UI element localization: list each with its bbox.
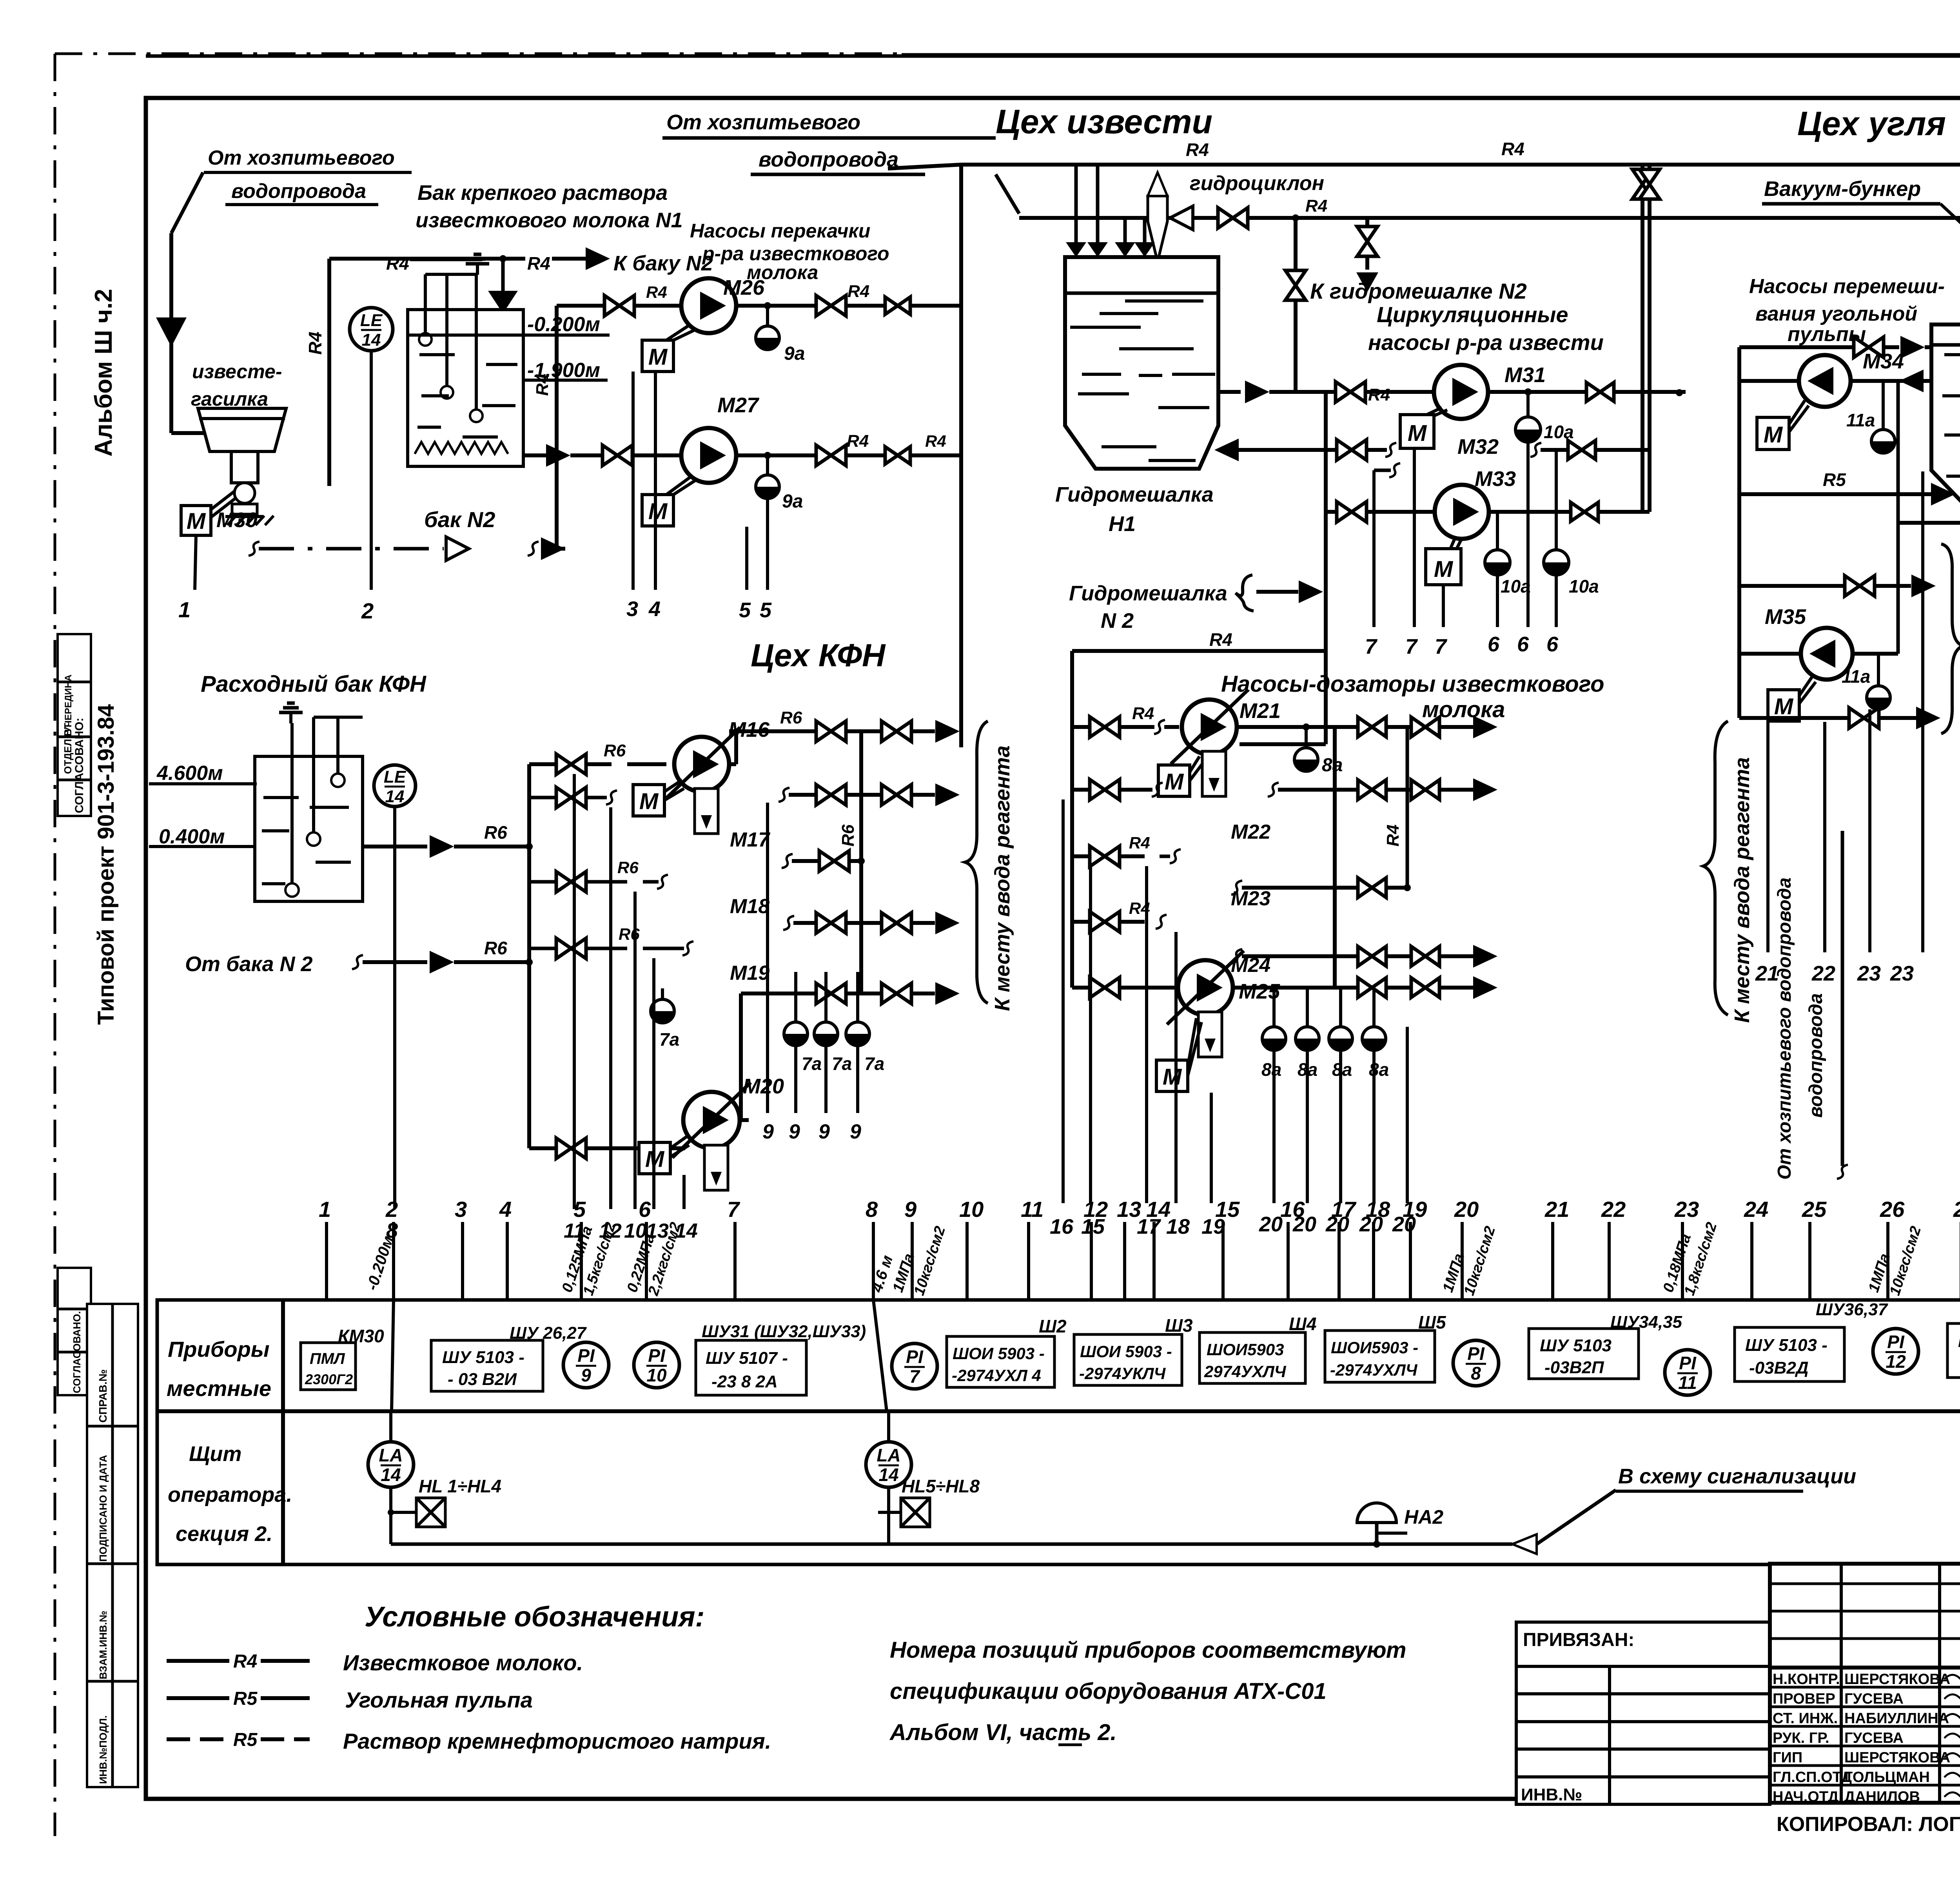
svg-text:5: 5 [760, 598, 772, 622]
row 3 (M23) [1072, 854, 1091, 858]
left stamp box (СОГЛАСОВАНО) [58, 634, 91, 816]
svg-text:Гидромешалка: Гидромешалка [1055, 483, 1214, 506]
svg-text:R6: R6 [484, 938, 507, 958]
row 3 valve [529, 880, 557, 884]
svg-text:М: М [639, 789, 659, 814]
svg-text:ШЕРСТЯКОВА: ШЕРСТЯКОВА [1844, 1671, 1950, 1688]
inlet triangles on mixer tank [1074, 165, 1078, 242]
KFN output row 3 [782, 854, 793, 868]
wire KFN outlet R6 [363, 845, 427, 848]
instr box ШУ5103-03В2М [1947, 1323, 1960, 1378]
svg-text:7а: 7а [832, 1053, 852, 1074]
svg-text:6: 6 [1517, 633, 1529, 656]
svg-text:ГУСЕВА: ГУСЕВА [1844, 1691, 1904, 1707]
svg-text:ГЛ.СП.ОТД: ГЛ.СП.ОТД [1773, 1769, 1852, 1786]
svg-text:5: 5 [573, 1197, 586, 1222]
svg-text:К месту ввода реагента: К месту ввода реагента [991, 745, 1014, 1011]
KFN pump M16 to row1 jog [729, 762, 736, 766]
svg-text:9: 9 [762, 1120, 774, 1143]
indicators 8a row of 4 [1272, 988, 1276, 1027]
svg-text:водопровода: водопровода [231, 180, 366, 203]
svg-text:10а: 10а [1501, 576, 1531, 596]
svg-text:13: 13 [1117, 1197, 1141, 1222]
svg-text:LA: LA [877, 1445, 900, 1465]
wire M21 discharge [1237, 725, 1358, 729]
svg-text:ШУ 5107 -: ШУ 5107 - [706, 1349, 788, 1368]
row3 out [1231, 881, 1242, 895]
KFN level 4.600 [149, 782, 257, 785]
panel instrument LA 14 no2 [866, 1442, 911, 1487]
svg-text:5: 5 [739, 598, 751, 622]
svg-text:М21: М21 [1240, 699, 1281, 723]
wire LE to panel [370, 352, 373, 590]
motor box M35 [1768, 690, 1799, 721]
wire stubs 17 18 19 [1145, 866, 1148, 1203]
wire R4 top to tank [329, 257, 503, 261]
svg-text:PI: PI [1887, 1332, 1905, 1352]
svg-text:ПОДПИСАНО И ДАТА: ПОДПИСАНО И ДАТА [97, 1455, 109, 1562]
svg-text:R4: R4 [1209, 629, 1232, 650]
svg-text:Расходный бак КФН: Расходный бак КФН [201, 671, 426, 697]
wire M27 discharge [736, 453, 817, 457]
svg-text:Насосы-дозаторы известкового: Насосы-дозаторы известкового [1221, 671, 1604, 697]
horn HA2 [1357, 1503, 1396, 1523]
feed row upper to mixer N2 [1739, 584, 1846, 588]
manifold riser KFN [527, 764, 531, 1148]
svg-text:7а: 7а [864, 1053, 884, 1074]
svg-text:От хозпитьевого: От хозпитьевого [208, 147, 395, 169]
wire vertical water spur [1841, 854, 1844, 1166]
svg-text:М27: М27 [717, 393, 760, 417]
svg-text:R4: R4 [305, 332, 325, 355]
KFN output row 4 [783, 916, 794, 930]
svg-text:Цех КФН: Цех КФН [751, 638, 886, 673]
instr box ШОИ 1 [947, 1336, 1054, 1387]
svg-text:гасилка: гасилка [191, 388, 268, 410]
hydro-mixer tank N1 [1065, 257, 1218, 469]
arrow into slaker [156, 317, 187, 347]
svg-text:М33: М33 [1475, 467, 1516, 491]
svg-text:Н1: Н1 [1109, 512, 1136, 536]
svg-text:R4: R4 [1501, 139, 1524, 159]
row 4 (M24) [1072, 920, 1091, 924]
row2 out [1268, 783, 1279, 797]
wire water inlet [171, 172, 203, 233]
svg-text:НАЧ.ОТД.: НАЧ.ОТД. [1773, 1789, 1843, 1805]
svg-text:14: 14 [385, 787, 405, 806]
tank N1 [408, 310, 523, 466]
svg-text:14: 14 [362, 330, 381, 350]
svg-text:Раствор кремнефтористого натри: Раствор кремнефтористого натрия. [343, 1729, 771, 1753]
svg-text:М: М [648, 499, 668, 524]
svg-text:КМ30: КМ30 [338, 1326, 384, 1346]
valve stub to hydro-mixer N2 [1365, 218, 1369, 227]
svg-text:От бака N 2: От бака N 2 [185, 952, 313, 976]
instr circle PI 12 [1873, 1329, 1918, 1374]
svg-text:М31: М31 [1504, 363, 1546, 387]
wire M25 discharge [1233, 986, 1358, 990]
valve M26 suction [604, 295, 634, 316]
dosing pump M25 [1178, 960, 1233, 1015]
svg-text:22: 22 [1811, 962, 1835, 985]
svg-text:R6: R6 [484, 822, 507, 843]
pump M33 [1435, 485, 1489, 539]
bracket К месту ввода реагента (KFN) [965, 721, 988, 1003]
svg-text:9: 9 [818, 1120, 830, 1143]
svg-text:Приборы: Приборы [168, 1337, 270, 1361]
instr box ШУ5103-03В2И [431, 1340, 543, 1391]
svg-text:7: 7 [727, 1197, 740, 1222]
svg-text:Гидромешалка: Гидромешалка [1069, 582, 1227, 605]
svg-text:ГУСЕВА: ГУСЕВА [1844, 1730, 1904, 1746]
svg-text:PI: PI [906, 1347, 924, 1367]
svg-text:Циркуляционные: Циркуляционные [1377, 302, 1568, 327]
svg-text:2300Г2: 2300Г2 [305, 1371, 353, 1387]
svg-text:СОГЛАСОВАНО:: СОГЛАСОВАНО: [73, 718, 86, 813]
instr box ШУ5107-2382А [696, 1340, 806, 1395]
KFN output row 2 [779, 788, 789, 802]
svg-text:7: 7 [909, 1366, 920, 1387]
svg-text:бак N2: бак N2 [424, 507, 495, 532]
wire R4 riser mid [555, 306, 559, 549]
svg-text:10а: 10а [1569, 576, 1599, 596]
pump M31 [1434, 365, 1488, 419]
instr box ШУ5103-03В2Д [1735, 1327, 1844, 1381]
svg-text:Ш2: Ш2 [1039, 1316, 1067, 1336]
svg-text:R4: R4 [233, 1651, 257, 1672]
svg-text:ШУ36,37: ШУ36,37 [1816, 1300, 1889, 1319]
indicator 9a upper [766, 306, 769, 326]
motor box M21 [1158, 765, 1190, 796]
row4 out [1231, 949, 1242, 963]
valve M33 suction [1337, 502, 1367, 522]
motor box M31 [1400, 415, 1434, 448]
dosing pump M21 [1182, 700, 1237, 754]
svg-text:ШЕРСТЯКОВА: ШЕРСТЯКОВА [1844, 1749, 1950, 1766]
title block left grid [1840, 1564, 1843, 1803]
svg-text:Насосы перекачки: Насосы перекачки [690, 220, 870, 242]
valve on M27 suction [603, 445, 632, 466]
svg-text:ПМЛ: ПМЛ [310, 1350, 345, 1367]
svg-text:8а: 8а [1261, 1059, 1281, 1080]
indicator 7a single [661, 988, 664, 999]
valve row2 far [885, 447, 910, 464]
svg-text:М19: М19 [730, 962, 769, 984]
row 2 valve [529, 796, 557, 799]
instr box ШУ5103-03В2П [1529, 1329, 1639, 1379]
instr box ПМЛ [301, 1343, 356, 1390]
KFN output row 5 [741, 992, 816, 995]
svg-text:22: 22 [1601, 1197, 1626, 1222]
signal wire [391, 1543, 1512, 1546]
svg-text:ШУ31 (ШУ32,ШУ33): ШУ31 (ШУ32,ШУ33) [702, 1322, 866, 1341]
svg-text:М17: М17 [730, 828, 770, 851]
svg-text:ШУ34,35: ШУ34,35 [1610, 1312, 1682, 1332]
brace and arrow into riser [1236, 575, 1254, 611]
suction arrow from tank to M34 [1851, 379, 1931, 383]
svg-text:Номера позиций приборов соо: Номера позиций приборов соответствуют [890, 1637, 1406, 1663]
svg-text:гидроциклон: гидроциклон [1190, 172, 1324, 195]
sheet trim border (dash-dot) [55, 53, 902, 55]
svg-text:R4: R4 [386, 253, 409, 274]
svg-text:11: 11 [1021, 1197, 1044, 1222]
svg-text:-2974УХЛЧ: -2974УХЛЧ [1330, 1361, 1418, 1379]
svg-text:R4: R4 [925, 432, 946, 450]
wire left riser from pumps [959, 165, 963, 747]
svg-text:Ш4: Ш4 [1289, 1314, 1317, 1334]
svg-text:К месту ввода реагента: К месту ввода реагента [1730, 757, 1754, 1023]
svg-text:7: 7 [1365, 635, 1378, 658]
svg-text:8а: 8а [1369, 1059, 1389, 1080]
svg-text:R5: R5 [233, 1688, 258, 1709]
dosing pump M16 [674, 737, 729, 792]
motor box M27 [642, 495, 673, 526]
svg-text:23: 23 [1857, 962, 1881, 985]
svg-text:РУК. ГР.: РУК. ГР. [1773, 1730, 1829, 1746]
svg-text:HL5÷HL8: HL5÷HL8 [902, 1476, 980, 1496]
wire stubs 5 5 [745, 527, 748, 590]
legend R5 dashed line [167, 1737, 229, 1741]
svg-text:От хозпитьевого водопровода: От хозпитьевого водопровода [1774, 877, 1795, 1180]
svg-text:12: 12 [1886, 1351, 1906, 1372]
svg-text:М18: М18 [730, 895, 769, 918]
svg-text:М34: М34 [1863, 350, 1904, 373]
wire stubs 20 x5 [1272, 1050, 1276, 1203]
svg-text:Альбом Ш ч.2: Альбом Ш ч.2 [90, 289, 117, 457]
svg-text:Бак крепкого раствора: Бак крепкого раствора [417, 181, 668, 205]
KFN tank probes [290, 723, 294, 884]
svg-text:М: М [1408, 421, 1427, 446]
svg-text:ШОИ 5903 -: ШОИ 5903 - [953, 1344, 1045, 1363]
svg-text:R6: R6 [617, 858, 639, 877]
wire LE KFN down [393, 807, 396, 1209]
svg-text:М35: М35 [1765, 605, 1806, 629]
svg-text:ШУ 5103 -: ШУ 5103 - [1745, 1336, 1828, 1355]
svg-text:НАБИУЛЛИНА: НАБИУЛЛИНА [1844, 1710, 1949, 1727]
svg-text:ИНВ.№ПОДЛ.: ИНВ.№ПОДЛ. [97, 1715, 109, 1784]
svg-text:11а: 11а [1846, 410, 1875, 430]
motor box M20 [639, 1142, 670, 1174]
row 2 right [1530, 443, 1541, 457]
svg-text:ШОИ5903 -: ШОИ5903 - [1331, 1338, 1418, 1357]
svg-text:20: 20 [1259, 1213, 1283, 1236]
svg-text:6: 6 [639, 1197, 651, 1222]
svg-text:местные: местные [167, 1376, 271, 1401]
row 3 elbow stub [1374, 469, 1391, 472]
svg-text:М20: М20 [743, 1075, 784, 1098]
coal mixer tank N1 [1931, 324, 1960, 510]
привязан box [1516, 1622, 1770, 1804]
svg-text:25: 25 [1802, 1197, 1827, 1222]
svg-text:М30: М30 [216, 508, 258, 532]
right collector M21-25 [1333, 727, 1337, 988]
svg-text:R6: R6 [780, 708, 802, 727]
valve on riser x4190 [1641, 165, 1644, 510]
wire R4 link to dosing pumps [1072, 649, 1326, 653]
svg-text:R4: R4 [646, 283, 667, 301]
svg-text:М: М [1434, 557, 1454, 582]
svg-text:М: М [1165, 769, 1184, 794]
wire M33 row [1326, 510, 1338, 514]
pump M26 [681, 278, 736, 333]
svg-text:1: 1 [319, 1197, 331, 1222]
svg-text:ШОИ 5903 -: ШОИ 5903 - [1080, 1342, 1172, 1361]
row M16 suction [529, 762, 557, 766]
wire top feed row [1739, 345, 1854, 349]
svg-text:4: 4 [648, 597, 661, 621]
valve M33 discharge [1571, 502, 1598, 521]
svg-text:М32: М32 [1457, 435, 1499, 459]
instr circle PI 8 [1453, 1340, 1499, 1386]
motor box M26 [642, 340, 673, 372]
svg-text:26: 26 [1880, 1197, 1905, 1222]
svg-text:27: 27 [1953, 1197, 1960, 1222]
svg-text:СОГЛАСОВАНО.: СОГЛАСОВАНО. [71, 1311, 83, 1393]
svg-text:КОПИРОВАЛ: ЛОГИНОВА: КОПИРОВАЛ: ЛОГИНОВА [1777, 1813, 1960, 1836]
svg-text:ШУ 5103 -: ШУ 5103 - [1958, 1332, 1960, 1351]
svg-text:10: 10 [959, 1197, 984, 1222]
svg-text:9а: 9а [782, 491, 803, 512]
svg-text:12: 12 [1083, 1197, 1108, 1222]
valves+arrow M21 out [1358, 717, 1386, 737]
svg-text:8: 8 [1471, 1363, 1481, 1383]
svg-text:8а: 8а [1322, 755, 1343, 776]
arrow into cyclone [1170, 206, 1193, 230]
row 2 (M22) [1072, 788, 1091, 792]
svg-text:НА2: НА2 [1404, 1506, 1443, 1528]
svg-text:ШУ 26,27: ШУ 26,27 [510, 1323, 587, 1343]
svg-text:PI: PI [577, 1345, 595, 1366]
sheet top edge line [146, 54, 1960, 58]
svg-text:7а: 7а [659, 1029, 679, 1050]
svg-text:Типовой проект 901-3-193.84: Типовой проект 901-3-193.84 [93, 704, 119, 1025]
left stamp column (ИНВ.№ boxes) [87, 1304, 138, 1787]
svg-text:14: 14 [381, 1465, 401, 1485]
svg-text:-03В2П: -03В2П [1544, 1358, 1604, 1377]
indicators 7a row [794, 972, 797, 1022]
svg-text:ГОЛЬЦМАН: ГОЛЬЦМАН [1844, 1769, 1930, 1786]
svg-text:15: 15 [1215, 1197, 1240, 1222]
svg-text:К баку N2: К баку N2 [613, 252, 713, 275]
motor box M30 [181, 506, 211, 535]
pump M27 [681, 428, 736, 483]
riser to mixer rows [1324, 392, 1328, 651]
svg-text:PI: PI [648, 1345, 666, 1366]
KFN output row 1 [729, 729, 816, 733]
indicator 10a no2 [1496, 512, 1499, 551]
svg-text:R4: R4 [1129, 834, 1150, 852]
svg-text:Насосы перемеши-: Насосы перемеши- [1749, 275, 1945, 298]
indicator 10a no1 [1524, 388, 1532, 395]
wire stub 1 [195, 535, 196, 590]
motor box M33 [1426, 549, 1461, 585]
svg-text:3: 3 [455, 1197, 467, 1222]
svg-text:УЧЕРЕДИНА: УЧЕРЕДИНА [63, 674, 74, 733]
svg-text:М: М [1764, 422, 1783, 448]
svg-text:СПРАВ.№: СПРАВ.№ [97, 1369, 109, 1423]
arrow К баку N2 [586, 247, 610, 270]
svg-text:R4: R4 [847, 431, 869, 451]
wire R5 row to hopper [1737, 381, 1741, 494]
valve M26 discharge [816, 295, 846, 316]
pump M34 [1737, 347, 1741, 381]
instr box ШОИ 4 [1325, 1331, 1435, 1382]
svg-text:известе-: известе- [192, 361, 282, 383]
svg-text:0.400м: 0.400м [159, 825, 225, 848]
indicator 11a (M34) [1882, 381, 1885, 430]
svg-text:-2974УКЛЧ: -2974УКЛЧ [1079, 1364, 1166, 1383]
svg-text:Угольная пульпа: Угольная пульпа [345, 1688, 533, 1712]
svg-text:2: 2 [361, 598, 374, 623]
vertical R4 labeled [1406, 727, 1409, 888]
valve M31 suction [1336, 382, 1365, 402]
svg-text:ШУ 5103: ШУ 5103 [1540, 1336, 1612, 1355]
svg-text:9: 9 [581, 1365, 591, 1385]
wire stubs 16 15 [1062, 799, 1065, 1203]
instrument table frame [157, 1300, 1960, 1564]
wire M31 discharge [1488, 390, 1650, 394]
svg-text:9: 9 [850, 1120, 861, 1143]
svg-text:9а: 9а [784, 343, 805, 364]
row M21 [1072, 725, 1091, 729]
svg-text:14: 14 [1146, 1197, 1171, 1222]
tank N1 media dashes [419, 353, 455, 356]
svg-text:Альбом VI, часть 2.: Альбом VI, часть 2. [889, 1720, 1117, 1745]
svg-text:9: 9 [789, 1120, 800, 1143]
wire main lower (water) [996, 174, 1019, 214]
wire M26 discharge [736, 304, 817, 308]
svg-text:R5: R5 [233, 1729, 258, 1750]
wire M26 suction [557, 304, 604, 308]
valve near cyclone [1218, 208, 1248, 228]
svg-text:ВЗАМ.ИНВ.№: ВЗАМ.ИНВ.№ [97, 1611, 109, 1679]
svg-text:7: 7 [1435, 635, 1448, 658]
bracket К месту ввода реагента (M21-25) [1703, 721, 1728, 1015]
wire main R4 upper [888, 165, 961, 169]
svg-text:-0.200м: -0.200м [527, 313, 600, 336]
svg-text:14: 14 [878, 1465, 898, 1485]
legend R4 line [167, 1659, 229, 1663]
svg-text:4: 4 [499, 1197, 512, 1222]
svg-text:1: 1 [178, 597, 191, 622]
svg-text:3: 3 [626, 597, 638, 621]
wire tank outlet row [523, 453, 546, 457]
svg-text:R4: R4 [527, 253, 550, 274]
wire M33 discharge [1489, 510, 1650, 514]
svg-text:М: М [1774, 694, 1794, 719]
svg-text:21: 21 [1755, 962, 1779, 985]
svg-text:23: 23 [1890, 962, 1914, 985]
svg-text:R4: R4 [1305, 196, 1327, 216]
svg-text:20: 20 [1454, 1197, 1479, 1222]
svg-text:-23 8 2А: -23 8 2А [711, 1372, 778, 1391]
earthing symbol KFN [289, 712, 292, 723]
svg-text:11: 11 [1678, 1372, 1697, 1393]
valve M27 discharge [816, 445, 846, 466]
tank N1 bottom hatch [415, 442, 508, 454]
svg-text:23: 23 [1674, 1197, 1699, 1222]
svg-text:ШОИ5903: ШОИ5903 [1207, 1340, 1284, 1359]
svg-text:вания угольной: вания угольной [1755, 303, 1917, 325]
svg-text:Ш3: Ш3 [1165, 1315, 1193, 1336]
svg-text:16: 16 [1050, 1215, 1074, 1238]
instr box ШОИ 2 [1074, 1334, 1182, 1385]
instr box ШОИ 3 [1200, 1332, 1305, 1383]
wire return into hopper [1239, 448, 1326, 452]
svg-text:- 03 В2И: - 03 В2И [448, 1370, 517, 1389]
svg-text:К гидромешалке N2: К гидромешалке N2 [1310, 279, 1527, 303]
wire R4 riser left [327, 259, 331, 486]
